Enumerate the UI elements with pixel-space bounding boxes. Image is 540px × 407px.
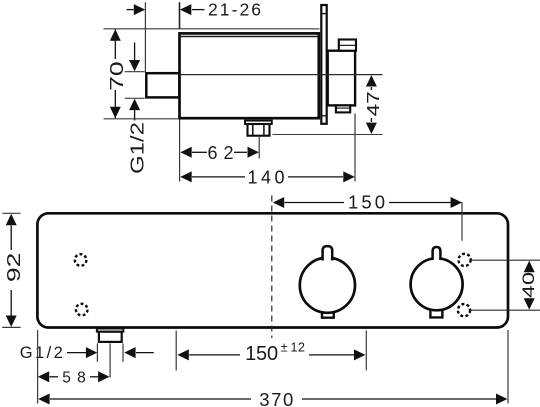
connector bottom tab <box>336 105 350 112</box>
svg-text:47: 47 <box>363 91 383 116</box>
dimension 370 <box>38 330 508 407</box>
wire: ext line connector end down <box>354 114 356 182</box>
screw hole (dashed) left top <box>75 254 87 266</box>
stub width arrow (right side, points left) <box>124 347 154 358</box>
wall plate <box>321 5 326 124</box>
wire: top face inner line <box>180 36 319 38</box>
outlet nut body <box>248 124 270 136</box>
wire: union nut cap inner line <box>339 44 356 46</box>
knob Q1 bottom tab <box>322 310 334 318</box>
wire: outlet centerline down to 62-dim <box>258 136 260 159</box>
screw hole (dashed) right bottom <box>458 304 470 316</box>
union nut top cap <box>339 40 356 51</box>
screw hole (dashed) right top <box>459 254 471 266</box>
wire: ext line left inlet <box>175 331 177 371</box>
dimension 21-26 <box>127 0 262 72</box>
wire: top back edge / 70-dim top extension line <box>104 28 320 30</box>
wire: ext line body front down <box>179 120 181 182</box>
svg-text:92: 92 <box>4 253 24 283</box>
wire: dashed centerline <box>271 196 273 339</box>
svg-text:70: 70 <box>107 61 127 91</box>
screw hole (dashed) left bottom <box>76 304 88 316</box>
wire: ext line square top <box>125 71 145 73</box>
wire: ext line left <box>37 330 39 404</box>
svg-text:G1/2: G1/2 <box>127 122 147 174</box>
svg-text:±: ± <box>281 340 288 355</box>
dimension 140 <box>180 114 355 188</box>
svg-text:12: 12 <box>291 341 306 355</box>
knob Q2 circle <box>411 258 463 310</box>
wire: leader line lower hole to 40-dim <box>471 309 540 311</box>
wire: leader line upper hole to 40-dim <box>471 259 540 261</box>
svg-text:G1/2: G1/2 <box>20 344 63 362</box>
svg-text:140: 140 <box>248 167 285 187</box>
wire: stub centerline down <box>109 343 111 377</box>
dimension 47 <box>363 75 383 134</box>
wire: body bottom extension line (70-dim bottom ref) <box>104 118 180 120</box>
wire: stub ext line right <box>122 343 124 361</box>
svg-text:150: 150 <box>245 343 278 365</box>
wire: ext line right <box>461 202 463 241</box>
wire: wall plate top cap line <box>321 13 326 15</box>
sub-dimension G1/2 inlet (arrows only) <box>125 43 148 175</box>
wire: extension line from nut bottom to 47-dim <box>273 134 383 136</box>
wire: bottom tab inner line <box>336 107 350 109</box>
wire: ext line at body front face <box>179 2 181 29</box>
dimension 150±12 <box>176 331 366 371</box>
wire: stub ext line left <box>96 343 98 361</box>
svg-text:150: 150 <box>348 191 385 212</box>
wire: ext line at inlet face <box>144 2 146 72</box>
wire: ext line square bottom <box>125 97 145 99</box>
inlet connector G1/2 (square) <box>146 73 179 97</box>
knob Q2 stem <box>433 247 441 260</box>
outlet nut flange (below body) <box>245 121 272 124</box>
wire: nut facet line left <box>252 124 254 136</box>
connector cylinder (through-wall body) <box>328 51 355 106</box>
wire: wall plate bottom cap line <box>321 115 326 117</box>
svg-text:21-26: 21-26 <box>208 0 261 19</box>
wire: ext line bottom <box>2 326 20 328</box>
knob Q1 circle <box>300 258 355 313</box>
knob Q1 stem <box>323 246 333 260</box>
dimension 40 <box>519 261 538 310</box>
wire: nut facet line right <box>263 124 265 136</box>
wire: ext line top <box>2 212 20 214</box>
knob Q2 bottom tab <box>430 310 442 318</box>
wire: ext line right <box>507 330 509 404</box>
dimension 150 (top) <box>273 191 462 240</box>
dimension 70 <box>107 29 127 118</box>
svg-text:370: 370 <box>259 389 293 407</box>
dimension 92 <box>2 213 24 327</box>
outlet stub body <box>99 332 122 342</box>
body (front view, rounded rectangle) <box>37 213 508 327</box>
wire: ext line right inlet <box>365 331 367 371</box>
svg-text:40: 40 <box>519 272 538 298</box>
outlet stub flange <box>97 329 124 332</box>
dimension 58 <box>38 369 110 386</box>
label G1/2 (bottom outlet) <box>20 344 98 362</box>
wire: mid parting line with right extension <box>180 74 383 76</box>
body (side view outline) <box>180 33 319 118</box>
dimension 62 <box>180 143 259 163</box>
